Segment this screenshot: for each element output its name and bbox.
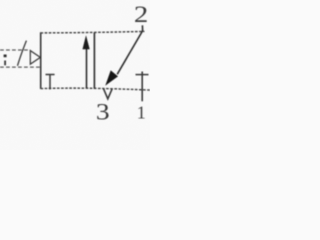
port 1 line (below body) <box>141 90 143 102</box>
valve body bottom edge (dashed) <box>41 88 150 90</box>
svg-text:2: 2 <box>134 2 148 28</box>
exhaust flow arrowhead <box>105 70 118 85</box>
port 3 exhaust V symbol <box>104 89 113 99</box>
position divider line <box>93 32 95 89</box>
pilot line lower (dashed) <box>0 66 41 68</box>
pilot branch vertical dash segments <box>4 55 7 66</box>
slash across pilot lines <box>18 41 27 66</box>
flow path arrow up (left chamber) <box>83 35 90 88</box>
svg-text:1: 1 <box>137 103 146 123</box>
exhaust flow path 2->3 (right chamber, curved line) <box>117 25 142 74</box>
pilot line upper (dashed) <box>0 49 30 51</box>
scan grain <box>0 0 150 150</box>
pilot actuator triangle <box>30 51 40 65</box>
blocked port T (right chamber, port 1) <box>136 72 149 90</box>
valve body left edge <box>40 32 42 89</box>
svg-text:3: 3 <box>96 100 110 125</box>
valve body top edge (dashed) <box>41 31 145 33</box>
blocked port T (left chamber) <box>46 75 55 90</box>
